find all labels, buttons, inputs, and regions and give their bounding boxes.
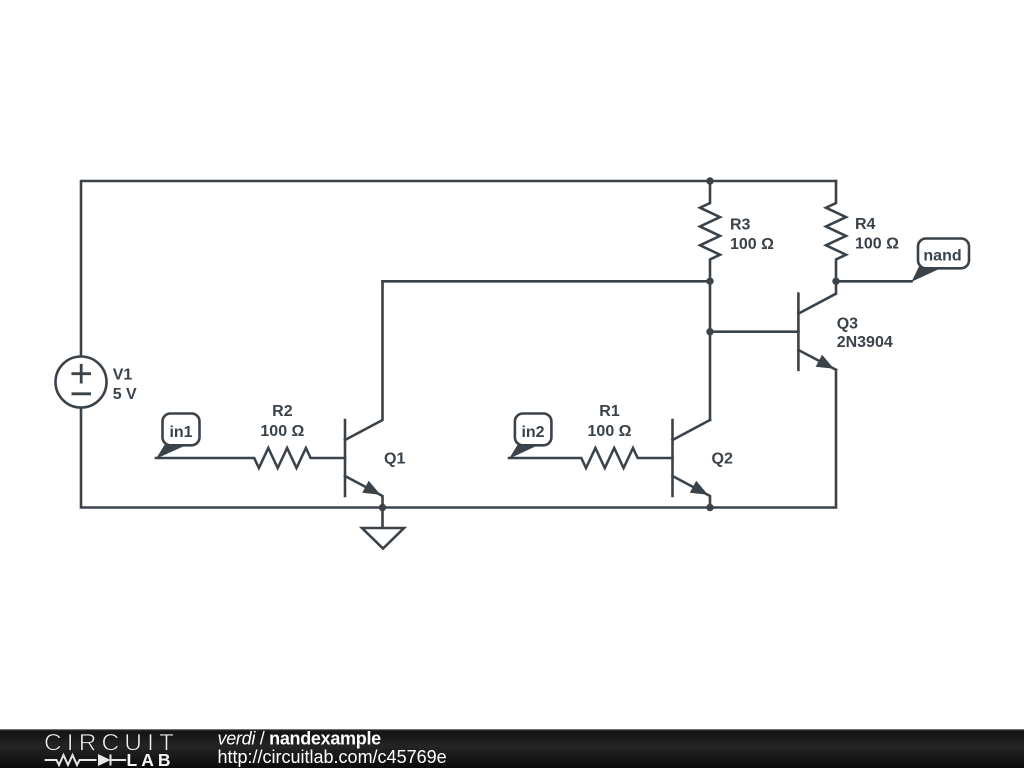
svg-text:Q3: Q3 bbox=[837, 316, 858, 333]
logo diode triangle bbox=[98, 754, 111, 766]
svg-text:100 Ω: 100 Ω bbox=[730, 236, 774, 253]
transistor Q3 bbox=[797, 294, 800, 370]
svg-text:LAB: LAB bbox=[127, 750, 175, 768]
footer bar bbox=[0, 729, 1024, 768]
svg-text:Q1: Q1 bbox=[384, 451, 405, 468]
resistor R3 bbox=[700, 181, 720, 281]
flag in1 bbox=[156, 414, 200, 459]
Q1 emitter arrow bbox=[362, 481, 380, 495]
svg-text:V1: V1 bbox=[113, 367, 133, 384]
svg-text:R4: R4 bbox=[855, 216, 876, 233]
junction node top bbox=[706, 177, 713, 184]
transistor Q2 bbox=[671, 420, 674, 496]
svg-text:Q2: Q2 bbox=[712, 451, 733, 468]
voltage source V1 bbox=[56, 357, 107, 408]
wire nand output bbox=[836, 280, 912, 283]
svg-text:5 V: 5 V bbox=[113, 386, 137, 403]
junction node R4 bottom bbox=[832, 278, 839, 285]
ground stub bbox=[381, 508, 384, 529]
svg-text:in2: in2 bbox=[521, 424, 544, 441]
svg-text:http://circuitlab.com/c45769e: http://circuitlab.com/c45769e bbox=[218, 747, 447, 767]
flag in2 bbox=[509, 414, 551, 459]
svg-text:R3: R3 bbox=[730, 217, 751, 234]
svg-text:100 Ω: 100 Ω bbox=[260, 423, 304, 440]
wire top rail and left rail bbox=[81, 181, 836, 357]
Q2 emitter arrow bbox=[690, 481, 708, 495]
junction node Q2 emitter bbox=[706, 504, 713, 511]
wire node to Q2 collector bbox=[709, 281, 712, 420]
wire Q3 base bbox=[710, 330, 798, 333]
svg-text:100 Ω: 100 Ω bbox=[855, 236, 899, 253]
wire in1 with resistor R2 bbox=[156, 448, 345, 468]
wire collector bus y=281 bbox=[383, 280, 711, 283]
resistor R4 bbox=[826, 181, 846, 281]
Q3 emitter arrow bbox=[816, 355, 834, 369]
junction node R3 bottom bbox=[706, 278, 713, 285]
svg-text:100 Ω: 100 Ω bbox=[588, 423, 632, 440]
junction node ground bbox=[379, 504, 386, 511]
junction node Q3 base bbox=[706, 328, 713, 335]
svg-text:nand: nand bbox=[923, 248, 961, 265]
svg-text:R1: R1 bbox=[599, 403, 620, 420]
svg-text:in1: in1 bbox=[169, 424, 192, 441]
flag nand bbox=[912, 239, 970, 282]
logo resistor-diode glyph bbox=[45, 755, 126, 766]
transistor Q1 bbox=[344, 420, 347, 496]
svg-text:R2: R2 bbox=[272, 403, 293, 420]
ground symbol bbox=[362, 528, 404, 549]
svg-text:verdi / nandexample: verdi / nandexample bbox=[218, 728, 382, 748]
wire in2 with resistor R1 bbox=[509, 448, 673, 468]
wire bottom rail and right rail bbox=[81, 370, 836, 508]
svg-text:2N3904: 2N3904 bbox=[837, 334, 893, 351]
